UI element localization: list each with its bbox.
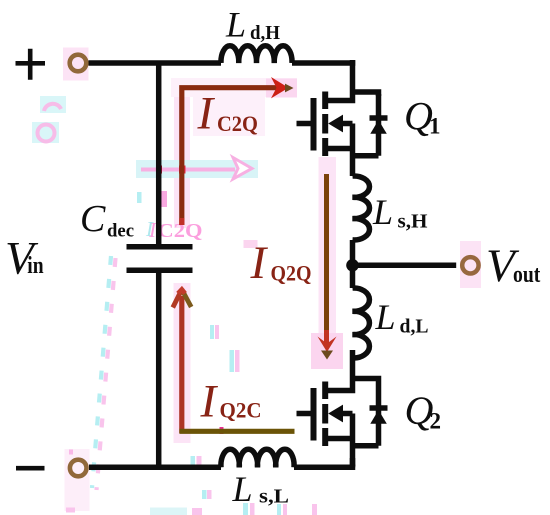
svg-text:C: C [80,198,106,240]
svg-text:s,H: s,H [398,211,428,233]
svg-text:2: 2 [430,409,442,434]
svg-text:in: in [27,253,43,279]
svg-text:I: I [197,88,216,140]
svg-text:C2Q: C2Q [217,111,258,136]
svg-text:d,H: d,H [250,22,280,44]
svg-text:1: 1 [429,114,441,139]
svg-text:d,L: d,L [400,316,429,338]
svg-text:dec: dec [107,221,134,242]
svg-text:I: I [250,237,269,289]
svg-text:Q2Q: Q2Q [271,261,312,286]
svg-text:Q2C: Q2C [220,398,262,423]
svg-text:L: L [372,192,393,232]
svg-text:s,L: s,L [259,486,289,508]
svg-text:I: I [200,376,219,428]
svg-text:out: out [513,262,540,288]
svg-text:I: I [148,218,157,242]
svg-text:L: L [375,297,396,337]
svg-text:L: L [232,469,253,509]
svg-text:L: L [225,4,246,44]
